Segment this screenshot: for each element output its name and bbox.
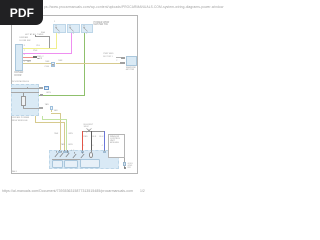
switch S2 <box>68 25 75 33</box>
interior switch 1 <box>54 151 60 158</box>
label green wire <box>46 92 51 94</box>
wire tan B stub down from module <box>35 116 36 123</box>
connector marks at right end of tan wire <box>120 62 125 64</box>
connector C2 marks <box>37 58 42 60</box>
wire magenta horizontal <box>23 53 72 54</box>
wire light green horizontal <box>42 119 67 120</box>
label above right stub <box>103 53 113 57</box>
label red stub <box>37 56 43 58</box>
window motor box (right) <box>126 56 138 66</box>
interior switch 5 under red <box>80 152 86 159</box>
power window motor assembly box (bottom) <box>49 150 119 170</box>
label tan wire mid <box>58 60 62 62</box>
module label above <box>12 81 29 83</box>
label magenta wire <box>33 50 37 52</box>
top url microtext <box>44 6 223 10</box>
pin text S1 <box>58 33 59 35</box>
pin text S2 <box>73 33 74 35</box>
wire blue vertical <box>104 131 105 150</box>
interior switch 3 <box>65 151 71 158</box>
wire yellow horizontal <box>23 48 57 49</box>
nested module 2 <box>64 160 78 168</box>
pin text 6 <box>24 54 25 56</box>
label tan A mid <box>54 133 58 135</box>
PDF badge <box>0 0 43 25</box>
connector marks line2 <box>39 107 43 109</box>
interior bottom bus <box>52 158 91 161</box>
switch cell 1 <box>53 24 66 34</box>
connector block (left) <box>15 44 23 71</box>
splice symbol <box>86 128 92 133</box>
entry connector 4 <box>81 151 84 153</box>
bottom url microtext <box>2 190 133 194</box>
interior switch 4 <box>72 152 78 159</box>
label red entry <box>83 136 87 138</box>
label yellow wire <box>36 45 40 47</box>
label line2 <box>45 104 49 106</box>
label tan entry <box>61 144 65 146</box>
nested module 3 <box>80 159 100 168</box>
connector block label <box>14 72 23 77</box>
control unit white box <box>108 134 124 158</box>
wire tan horizontal (left box to inline connector) <box>23 63 51 64</box>
entry connector 2 <box>63 151 66 153</box>
fuse feed wire horizontal <box>36 35 49 38</box>
connector marks on green wire <box>40 94 44 96</box>
wire yellow vertical from switch S1 <box>56 33 57 48</box>
inline blue connector line2 <box>50 106 54 110</box>
connector label C300 <box>44 66 49 68</box>
wire magenta vertical from switch S2 <box>71 33 72 53</box>
pin text 8 <box>24 45 25 47</box>
label above connector block <box>20 37 31 42</box>
wire tan A vertical <box>60 113 61 150</box>
entry connector 3 <box>66 151 69 153</box>
module label below <box>12 117 30 122</box>
band pin label <box>54 21 55 23</box>
ground dot <box>124 167 126 169</box>
wire tan A horizontal <box>51 112 60 115</box>
entry connector 1 <box>58 151 61 153</box>
pin text 2 motor <box>116 60 117 62</box>
pin stubs on top edge <box>58 150 61 152</box>
label below connector <box>54 110 58 112</box>
wire dark vertical <box>91 131 92 150</box>
wire green horizontal (module to junction) <box>39 95 85 96</box>
nested module 1 <box>52 160 63 168</box>
connector marks line1 <box>39 87 43 89</box>
blue highlight element line1 <box>44 86 49 90</box>
connector mark upper <box>121 57 126 59</box>
switch cell 3 <box>81 24 93 34</box>
label blk entry <box>92 136 96 138</box>
wire light green vertical <box>66 119 67 150</box>
wire green vertical from switch S3 <box>84 33 85 95</box>
wire red vertical <box>82 131 83 150</box>
label grn entry <box>68 144 73 146</box>
wire white stub horizontal <box>23 60 31 62</box>
relay component in module <box>21 96 26 106</box>
ground label <box>128 163 133 170</box>
label tan wire right <box>45 61 49 63</box>
ground wire vertical <box>123 158 126 167</box>
wire light green stub down from module <box>42 116 43 120</box>
ground fuse component <box>123 162 126 166</box>
switch S3 <box>82 25 89 33</box>
driver door module box <box>11 84 39 116</box>
label tan wire left <box>27 61 31 63</box>
connector marks on red stub <box>33 56 34 58</box>
page number <box>140 190 145 194</box>
wire red stub horizontal <box>23 57 33 59</box>
wire tan B horizontal <box>35 122 64 123</box>
interior pin text <box>71 150 75 152</box>
page corner label <box>12 171 17 173</box>
wire tan A stub down from connector <box>50 110 53 112</box>
entry connector 5 <box>103 151 106 153</box>
module internal line 2 <box>23 107 39 110</box>
fuse F32 label block <box>25 34 43 36</box>
module internal line 1b <box>11 91 38 94</box>
label above splice <box>84 124 94 129</box>
wire tan B vertical <box>64 122 65 150</box>
inline connector on tan wire <box>51 62 55 67</box>
interior switch 2 <box>59 151 65 158</box>
bus line joining verticals <box>82 130 105 133</box>
fuse feed wire vertical <box>48 36 51 48</box>
interior motor circle <box>89 152 94 158</box>
band label text <box>94 22 110 27</box>
gray stub wire into motor <box>116 56 121 59</box>
label grn mid <box>68 133 73 135</box>
pin text 7 <box>24 50 25 52</box>
pin text 5 <box>24 61 25 63</box>
page frame border <box>11 15 138 174</box>
label blu entry <box>99 136 103 138</box>
control unit text <box>110 136 120 145</box>
switch S1 <box>54 25 61 33</box>
pin text S3 <box>86 33 87 35</box>
motor label italic <box>126 67 136 72</box>
wire tan horizontal (inline connector to right) <box>56 63 121 64</box>
switch cell 2 <box>67 24 80 34</box>
fuse feed dot <box>35 35 37 37</box>
module internal line 1 <box>11 87 39 90</box>
tick on line1 <box>26 87 29 90</box>
